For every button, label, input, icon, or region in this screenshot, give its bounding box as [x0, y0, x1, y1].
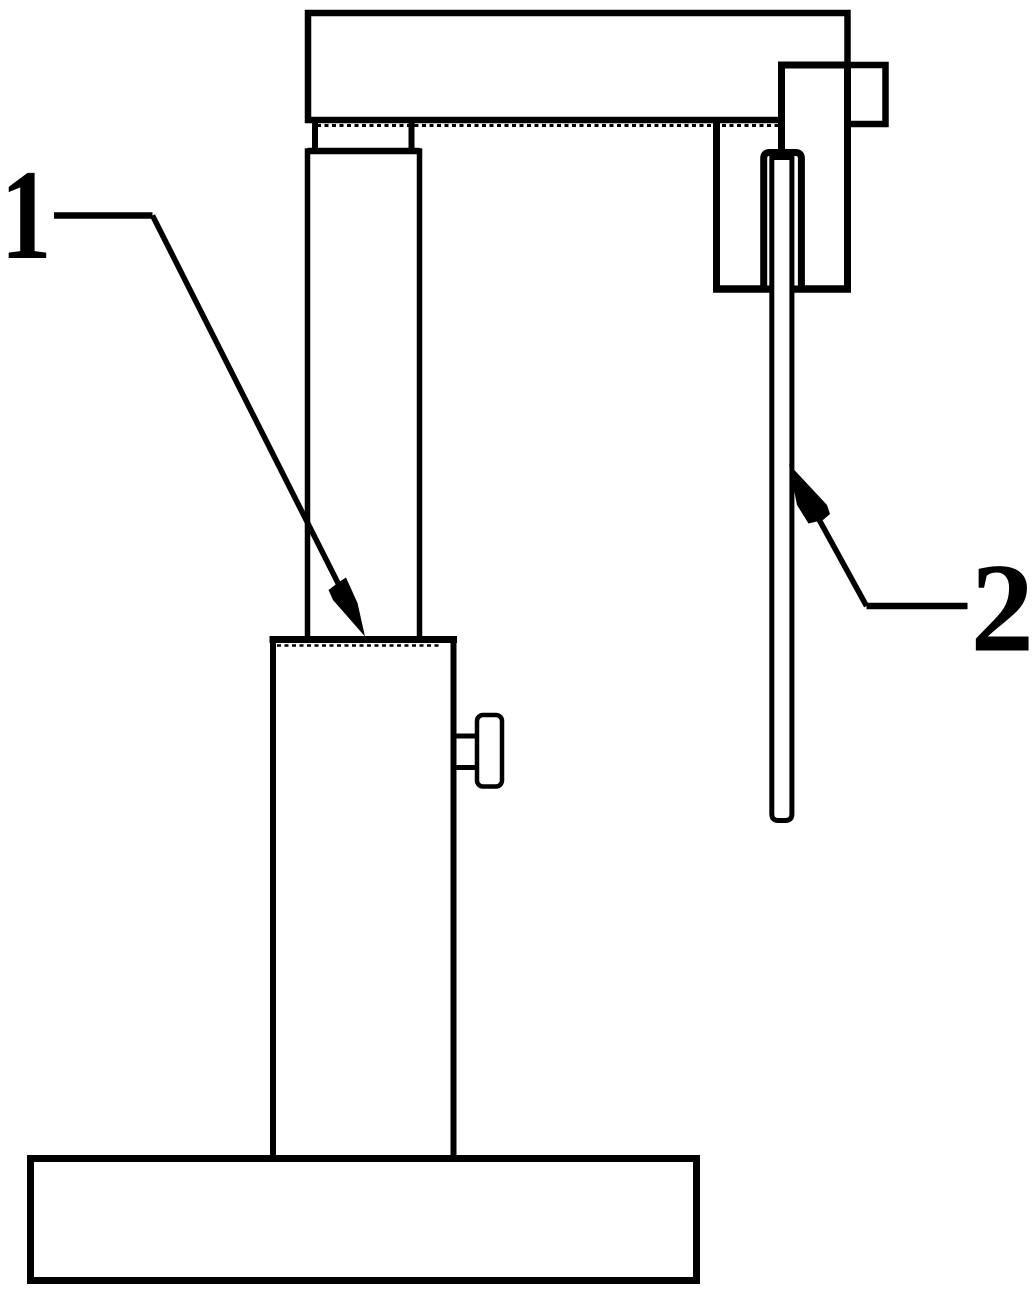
svg-text:1: 1 — [1, 144, 52, 287]
rod clamp cap — [764, 153, 802, 290]
clamp knob stem — [455, 734, 478, 739]
connector collar under arm — [315, 123, 412, 150]
upper column (inner tube) — [308, 151, 420, 641]
lower column (outer sleeve) — [273, 640, 454, 1159]
base plate — [31, 1159, 697, 1281]
svg-text:2: 2 — [971, 539, 1035, 679]
label 1 arrowhead — [329, 578, 366, 637]
label 1 leader line — [54, 212, 153, 219]
label 2 arrowhead — [789, 464, 830, 523]
bottom edge of bracket and head block — [713, 285, 851, 293]
top horizontal arm — [308, 13, 848, 120]
clamp knob head — [477, 715, 502, 787]
reference numeral 1 — [1, 144, 52, 287]
hanging bracket (left) — [713, 123, 720, 289]
small square fitting on right of head block — [848, 65, 886, 124]
head block at right end of arm — [782, 65, 848, 289]
label 2 leader line — [867, 603, 968, 610]
hanging rod — [772, 158, 792, 821]
dotted seam under arm — [317, 124, 778, 127]
